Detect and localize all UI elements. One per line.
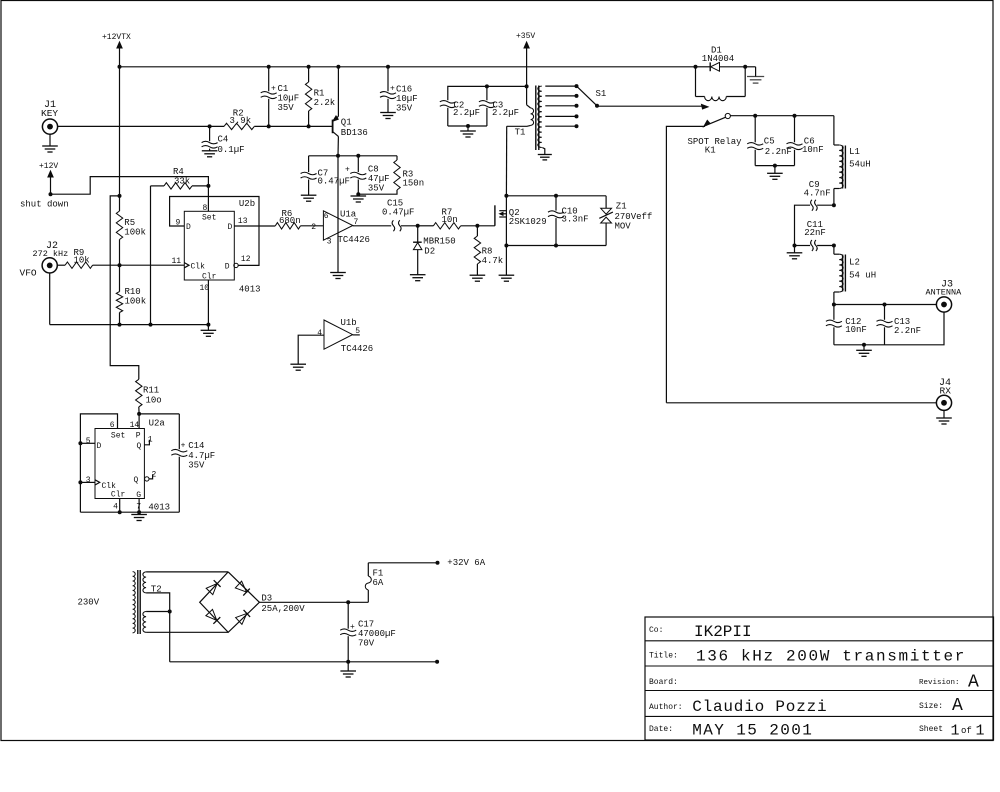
wire +12VTX rail [120,66,696,68]
svg-text:D: D [186,223,191,232]
svg-text:54uH: 54uH [849,160,871,170]
capacitor C2 2.2uF [440,101,480,127]
wire T1 tap1 [545,84,578,88]
svg-text:D: D [225,262,230,271]
svg-text:0.47µF: 0.47µF [318,177,350,187]
svg-text:R4: R4 [173,167,184,177]
wire U1a output [353,225,391,227]
resistor R4 33k [151,167,209,189]
svg-text:TC4426: TC4426 [338,235,370,245]
node U2a pin4 [118,510,122,514]
svg-text:4013: 4013 [148,503,170,513]
transformer T2 secondary upper [143,572,162,595]
ground J1 [42,134,58,152]
resistor R11 10 [136,379,162,414]
capacitor C9 4.7nF series [795,180,834,246]
svg-text:10µF: 10µF [278,94,300,104]
wire U2a pin7 lead [138,499,140,513]
power flag +12VTX [102,33,131,67]
svg-text:A: A [952,696,963,716]
title block Author Size [649,696,963,716]
svg-text:+: + [271,85,276,94]
svg-text:C14: C14 [188,441,204,451]
svg-text:shut down: shut down [20,200,69,210]
wire U2a pin5 [80,442,95,444]
svg-text:3.3nF: 3.3nF [562,215,589,225]
node Q2 source [504,244,508,248]
wire U2a pin3 [80,481,95,483]
svg-text:C8: C8 [368,165,379,175]
capacitor C13 2.2nF [877,305,922,345]
diode D1 1N4004 [696,46,746,72]
node R1 top [307,65,311,69]
node C10 bottom [554,244,558,248]
svg-text:270Veff: 270Veff [615,212,653,222]
node Q2 drain [504,194,508,198]
svg-text:3: 3 [327,238,332,247]
capacitor C7 0.47uF [301,156,350,194]
svg-text:ANTENNA: ANTENNA [926,288,963,298]
wire RX line [666,402,936,404]
svg-text:100k: 100k [124,228,146,238]
svg-text:R5: R5 [124,218,135,228]
connector J4 RX [936,378,951,410]
ground C7 [301,194,317,202]
switch S1 [577,86,607,108]
svg-text:33k: 33k [174,177,190,187]
wire Q1 base line [254,125,332,127]
capacitor C14 4.7uF 35V [171,414,215,512]
wire T2 top tap to bridge [146,571,228,573]
svg-text:Q: Q [134,476,139,485]
svg-text:6: 6 [110,421,115,430]
wire T1 tap5 [545,124,578,128]
inductor L2 54uH [834,246,876,305]
wire +12VTX vertical to R5 [119,67,121,211]
connector J1 KEY [41,100,58,134]
ground U1b [290,364,306,370]
svg-text:100k: 100k [125,297,147,307]
svg-text:MBR150: MBR150 [423,237,455,247]
wire R11 to C14 [139,413,179,415]
node C5C6 ground [773,164,777,168]
ground C12C13 [856,345,872,357]
node +12VTX tap to R11 feed [118,194,122,198]
wire Q2 source to ground [505,246,507,276]
svg-text:35V: 35V [278,103,295,113]
wire U2a bottom line [80,511,179,513]
title block Co [649,623,752,641]
resistor R9 10k [57,248,184,268]
svg-text:Set: Set [202,214,216,223]
svg-text:47000µF: 47000µF [358,629,396,639]
svg-text:25A,200V: 25A,200V [261,604,305,614]
node C11 right [832,244,836,248]
svg-text:12: 12 [241,255,251,264]
wire feed to R11 [110,196,139,379]
title block Date Sheet [649,722,985,740]
svg-text:F1: F1 [373,569,384,579]
svg-text:10µF: 10µF [396,94,418,104]
title block frame [645,617,994,740]
node C5 top [753,114,757,118]
node U2a pin5 tap [78,441,82,445]
svg-text:R8: R8 [482,247,493,257]
svg-text:4.7nF: 4.7nF [804,189,831,199]
node U2a pin7 [137,510,141,514]
U2a Clk input triangle [95,480,100,485]
node rail to D1 [694,65,698,69]
bridge rectifier D3 25A 200V [200,572,306,632]
wire U2a Set tie [80,414,117,512]
svg-text:Claudio Pozzi: Claudio Pozzi [692,698,827,716]
node pin6 feed [336,154,340,158]
node C8 top [356,154,360,158]
svg-text:K1: K1 [705,146,716,156]
svg-text:1N4004: 1N4004 [702,54,734,64]
svg-text:+12V: +12V [39,162,58,171]
svg-text:4: 4 [113,503,118,512]
inductor L1 54uH [834,116,871,206]
wire Q2 source rail [506,245,606,247]
svg-text:BD136: BD136 [341,128,368,138]
svg-text:C16: C16 [396,85,412,95]
svg-text:L1: L1 [849,147,860,157]
svg-text:3: 3 [86,476,91,485]
U2a pin1 stub [144,440,149,445]
svg-text:10nF: 10nF [845,325,867,335]
svg-text:Author:: Author: [649,703,683,712]
node R4 right junction [206,184,210,188]
ground T1 secondary [538,155,552,160]
node +12VTX/arrow [118,65,122,69]
node C11 left ground [793,244,797,248]
node R1 bottom [307,124,311,128]
resistor R6 680 [275,209,323,229]
node C10 top [554,194,558,198]
svg-text:4.7µF: 4.7µF [188,451,215,461]
svg-text:2.2nF: 2.2nF [894,326,921,336]
capacitor C16 10uF 35V [380,67,418,114]
node U2a pin3 tap [78,480,82,484]
svg-text:MOV: MOV [615,222,632,232]
svg-text:D: D [228,223,233,232]
capacitor C5 2.2nF [747,116,792,166]
wire center tap down [169,612,171,662]
transformer T2 primary [133,572,136,633]
transistor Q1 BD136 [333,116,368,138]
node L2 bottom [832,303,836,307]
op-amp driver U1a TC4426 [311,210,370,247]
svg-text:Set: Set [111,431,125,440]
ground R8 [470,275,486,281]
svg-text:47µF: 47µF [368,174,390,184]
svg-text:8: 8 [203,204,208,213]
wire Q2 drain rail [506,195,606,197]
svg-text:Z1: Z1 [616,202,627,212]
svg-text:D: D [97,442,102,451]
wire J2 down [49,273,51,325]
U2b Clk input triangle [184,263,189,268]
svg-text:C1: C1 [278,84,289,94]
transformer T2 secondary lower [143,612,146,633]
node +35V primary [525,84,529,88]
svg-text:10o: 10o [146,396,162,406]
label +32V 6A [447,558,485,568]
svg-text:54 uH: 54 uH [849,271,876,281]
svg-text:2.2µF: 2.2µF [453,108,480,118]
ground C16 [380,113,396,119]
svg-text:Clk: Clk [102,482,117,491]
diode D3c [206,609,220,623]
ground J4 [936,410,952,424]
svg-text:S1: S1 [596,89,607,99]
op-amp driver U1b TC4426 [317,318,373,354]
svg-text:Board:: Board: [649,678,678,687]
node R11 bottom [137,412,141,416]
svg-text:35V: 35V [396,104,413,114]
svg-text:5: 5 [86,437,91,446]
ground C4 [202,151,218,157]
wire bias ground line [50,324,209,326]
svg-text:680n: 680n [279,216,301,226]
capacitor C11 22nF series [795,220,834,251]
svg-text:IK2PII: IK2PII [694,623,752,641]
svg-text:1: 1 [976,723,985,740]
transistor Q2 2SK1029 [477,196,546,246]
power flag +35V [516,32,535,86]
svg-text:MAY 15 2001: MAY 15 2001 [692,722,813,740]
title block Title [649,648,966,666]
node C6 top [793,114,797,118]
capacitor C8 47uF 35V [345,156,390,194]
label 230V [78,598,100,608]
resistor R2 3.9k [224,109,254,130]
svg-text:U2b: U2b [239,199,255,209]
svg-text:L2: L2 [849,258,860,268]
svg-text:TC4426: TC4426 [341,344,373,354]
wire Q1 collector down [337,136,339,155]
U2b 4013 box [184,199,260,295]
svg-text:+: + [181,442,186,451]
svg-text:VFO: VFO [20,268,37,279]
wire antenna line [834,304,937,306]
svg-text:0.1µF: 0.1µF [218,145,245,155]
svg-text:Revision:: Revision: [919,679,960,687]
svg-text:22nF: 22nF [804,228,826,238]
svg-text:2.2µF: 2.2µF [492,108,519,118]
ground C17 [340,662,356,677]
svg-text:14: 14 [130,421,140,430]
diode D3d [236,610,250,624]
node C8 bottom [356,192,360,196]
relay K1 contacts SPDT [688,113,743,155]
wire U2a pin4 lead [119,499,121,513]
capacitor C12 10nF [826,305,867,345]
svg-text:6A: 6A [373,578,384,588]
capacitor C15 0.47uF series [382,199,418,232]
wire C5 C6 bottom [755,165,794,167]
wire U1b input [298,335,324,364]
wire C2 C3 bottom [448,125,487,127]
svg-text:C17: C17 [358,620,374,630]
svg-text:10nF: 10nF [802,145,824,155]
wire U2b Q output pin13 [234,225,275,227]
node C1 top [267,65,271,69]
svg-text:0.47µF: 0.47µF [382,208,414,218]
U2b pin12 inverter bubble [234,263,238,267]
node C16 top [386,65,390,69]
inductor L1 core [843,146,846,189]
node C4 top [208,124,212,128]
ground C2C3 [460,126,476,137]
ground C9C11 [787,246,803,259]
wire T1 primary to Q2 drain [505,126,507,196]
svg-text:KEY: KEY [41,108,58,119]
svg-text:70V: 70V [358,639,375,649]
transformer T1 core [536,86,539,151]
resistor R8 4.7k [474,226,503,275]
svg-text:11: 11 [172,257,182,266]
diode D3a [206,580,220,594]
wire C2 C3 top line [448,86,527,100]
capacitor C3 2.2uF [479,86,519,126]
svg-text:R1: R1 [314,89,325,99]
U2a pin2 bubble [145,474,153,481]
svg-text:4: 4 [317,329,322,338]
node center tap [168,610,172,614]
connector J3 ANTENNA [926,280,963,313]
node Clr ground junction [206,323,210,327]
resistor R1 2.2k [305,67,335,127]
svg-text:U2a: U2a [149,419,166,429]
svg-text:Clr: Clr [202,273,217,282]
capacitor C17 47000uF 70V [340,602,396,662]
fuse F1 6A [365,563,384,603]
svg-text:Clr: Clr [111,491,126,500]
svg-text:Co:: Co: [649,626,663,635]
inductor L2 core [843,255,846,292]
svg-text:35V: 35V [368,184,385,194]
svg-text:35V: 35V [188,461,205,471]
diode D2 MBR150 [413,226,456,275]
svg-text:+12VTX: +12VTX [102,33,131,42]
power flag +12V shut down [20,162,69,210]
svg-text:A: A [968,673,979,693]
wire U1a supply pin6 vertical [337,156,339,273]
varistor Z1 270Veff MOV [599,196,652,246]
node R8 top [475,224,479,228]
svg-text:230V: 230V [78,598,100,608]
wire T1 tap3 [545,104,578,108]
node D2 anode [416,224,420,228]
wire shut down to R4/Set [51,177,209,195]
svg-text:Size:: Size: [919,702,943,711]
node C12C13 ground [862,343,866,347]
svg-text:136 kHz 200W transmitter: 136 kHz 200W transmitter [696,648,966,666]
svg-text:2.2k: 2.2k [314,98,336,108]
node shut down [49,192,53,196]
node R4 ground junction [149,323,153,327]
node L1 bottom C9 [832,203,836,207]
svg-text:Sheet: Sheet [919,725,943,734]
U2a 4013 box [95,419,170,513]
svg-text:T1: T1 [515,128,526,138]
relay K1 coil [696,67,746,101]
wire S1 to relay [597,104,708,109]
resistor R10 100k [116,265,146,324]
svg-text:R10: R10 [125,287,141,297]
transformer T2 core [138,570,140,634]
wire T2 bottom tap to bridge [146,631,228,633]
svg-text:P: P [136,431,141,440]
ground U2a [131,515,147,521]
svg-text:D2: D2 [424,247,435,257]
svg-text:1: 1 [951,723,960,740]
U2a pin labels [86,421,157,512]
wire U2b Set lead pin8 [207,186,209,211]
transformer T1 primary [507,86,534,137]
svg-text:Clk: Clk [191,262,206,271]
wire relay NO to L1 [730,115,834,117]
svg-text:1: 1 [148,436,153,445]
wire F1 to +32V [368,561,439,565]
connector J2 VFO 272 kHz [20,241,69,279]
svg-text:of: of [961,726,972,736]
resistor R5 100k [116,211,146,265]
ground relay supply [747,77,764,84]
svg-text:Date:: Date: [649,725,673,734]
capacitor C10 3.3nF [548,196,589,246]
capacitor C1 10uF 35V [261,67,299,127]
node C17 bottom [346,660,350,664]
U2b pin labels [172,204,251,293]
ground C5C6 [767,166,783,180]
svg-text:+35V: +35V [516,32,535,41]
node Q1 emitter rail [336,65,340,69]
wire T2 center tap [146,593,170,612]
diode D3b [235,581,249,595]
wire U2b feedback loop Q to D [170,197,259,266]
svg-text:+: + [390,85,395,94]
node C3 top [485,84,489,88]
ground C8/R3 [351,196,367,202]
wire J1 to R2 [57,125,224,127]
node R9/R5/R10 junction [118,263,122,267]
svg-text:2.2nF: 2.2nF [765,147,792,157]
wire driver supply line [309,155,397,157]
svg-text:C4: C4 [218,135,229,145]
capacitor C6 10nF [787,116,824,166]
svg-text:2SK1029: 2SK1029 [509,217,547,227]
node R10 bottom [118,323,122,327]
ground Q2 source [499,275,515,281]
ground U1a pin3 [330,273,346,279]
ground bias line [201,325,217,337]
wire U2a pin14 lead [138,414,140,429]
svg-text:+: + [345,166,350,175]
svg-text:+32V 6A: +32V 6A [447,558,485,568]
svg-text:Q1: Q1 [341,118,352,128]
wire T2 lower top tap [146,611,170,613]
node C1 bottom [267,124,271,128]
svg-text:13: 13 [238,217,248,226]
wire relay NC to RX [666,126,705,402]
node C13 top [883,303,887,307]
wire T1 tap2 [545,94,578,98]
resistor R7 10 [418,208,478,230]
svg-text:2: 2 [311,223,316,232]
